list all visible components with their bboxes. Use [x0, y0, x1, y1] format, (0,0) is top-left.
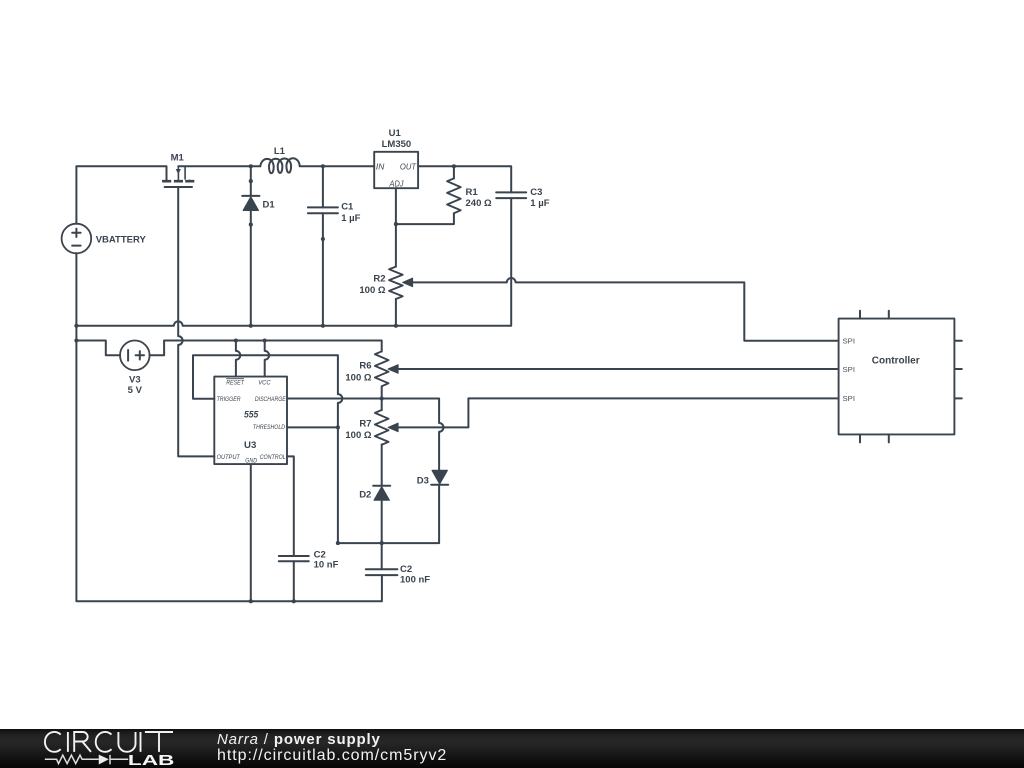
svg-text:D1: D1	[263, 200, 276, 211]
potentiometer R6	[375, 351, 398, 386]
wire battery bottom to rail1	[75, 253, 77, 325]
wire R1 top lead	[453, 166, 455, 178]
svg-text:C1: C1	[341, 201, 354, 212]
wire C2 10nF bottom to rail	[293, 561, 295, 601]
svg-text:OUT: OUT	[400, 162, 417, 172]
svg-text:SPI: SPI	[843, 365, 856, 374]
svg-text:Controller: Controller	[872, 355, 920, 366]
svg-text:SPI: SPI	[843, 394, 856, 403]
wire L1 to U1 IN	[300, 165, 375, 167]
svg-text:10 nF: 10 nF	[314, 560, 339, 571]
wire R6 bottom to R7 top	[381, 387, 383, 410]
inductor L1	[260, 158, 299, 173]
wire M1 gate down to 555 OUTPUT with hop over rail2	[178, 188, 214, 456]
svg-text:U3: U3	[244, 440, 256, 451]
svg-text:R2: R2	[373, 274, 385, 285]
svg-text:U1: U1	[389, 128, 402, 139]
svg-text:TRIGGER: TRIGGER	[217, 396, 241, 403]
regulator U1 box	[374, 152, 418, 188]
wire RESET drop with hop	[236, 341, 240, 377]
svg-text:100 Ω: 100 Ω	[359, 285, 385, 296]
svg-text:ADJ: ADJ	[389, 178, 405, 188]
capacitor C2 100nF	[366, 569, 398, 575]
wire left vertical to bottom rail to C2 100nF	[76, 326, 382, 602]
svg-text:555: 555	[244, 409, 259, 420]
svg-text:CONTROL: CONTROL	[260, 454, 286, 461]
pin labels 555	[217, 379, 286, 464]
resistor R1	[447, 178, 461, 213]
wire THRESHOLD pin	[287, 426, 338, 428]
svg-text:VCC: VCC	[258, 379, 270, 386]
capacitor C2 10nF	[279, 556, 309, 561]
wire U1 ADJ down to R2 top	[395, 188, 397, 266]
junction dots	[74, 164, 456, 603]
svg-text:THRESHOLD: THRESHOLD	[253, 424, 285, 431]
wire R6 wiper to controller SPI2	[397, 368, 839, 370]
svg-text:VBATTERY: VBATTERY	[96, 234, 147, 245]
wire D1 bottom to rail1	[250, 211, 252, 326]
logo diode triangle	[99, 755, 109, 765]
svg-text:M1: M1	[171, 153, 185, 164]
svg-text:R6: R6	[359, 361, 371, 372]
diode D2	[373, 486, 390, 500]
svg-text:DISCHARGE: DISCHARGE	[255, 396, 286, 403]
svg-text:D2: D2	[359, 490, 371, 501]
wire D2 bottom through node to C2 100nF top	[381, 500, 383, 569]
logo CIRCUIT lettering	[45, 732, 173, 752]
svg-text:C3: C3	[530, 187, 542, 198]
svg-text:R7: R7	[359, 418, 371, 429]
wire C3 bottom to rail1 with hop over gate line	[76, 198, 511, 326]
svg-text:5 V: 5 V	[128, 385, 143, 396]
potentiometer R7	[375, 410, 398, 445]
svg-text:L1: L1	[274, 146, 286, 157]
svg-text:1 µF: 1 µF	[530, 198, 549, 209]
svg-text:LM350: LM350	[382, 139, 412, 150]
svg-text:100 Ω: 100 Ω	[345, 372, 371, 383]
svg-text:D3: D3	[417, 475, 429, 486]
capacitor C1	[308, 207, 338, 213]
wire battery top to M1 drain	[76, 166, 166, 223]
diode D3	[431, 470, 448, 484]
svg-text:V3: V3	[129, 374, 141, 385]
wire VCC drop with hop	[265, 341, 269, 377]
wire R1 bottom to ADJ line	[396, 213, 454, 224]
svg-text:OUTPUT: OUTPUT	[217, 454, 241, 461]
wire C1 top lead	[322, 166, 324, 207]
555 timer U3 box	[214, 377, 287, 465]
wire C1 bottom to rail1	[322, 213, 324, 325]
diode D1	[242, 196, 259, 211]
wire 555 GND to bottom rail	[250, 464, 252, 601]
svg-text:GND: GND	[245, 458, 257, 464]
wire V3 right to rail2 to R6 top	[150, 341, 382, 356]
pin labels U1	[376, 162, 417, 189]
controller box	[839, 311, 962, 443]
svg-text:240 Ω: 240 Ω	[466, 198, 492, 209]
wire D3 bottom to C2 node	[338, 485, 439, 543]
potentiometer R2	[389, 267, 413, 299]
svg-text:SPI: SPI	[843, 337, 856, 346]
overline of RESET	[226, 378, 244, 380]
wire 555 CONTROL to C2 10nF	[287, 456, 294, 556]
wire R7 wiper to controller SPI3	[397, 398, 839, 427]
capacitor C3	[496, 192, 526, 198]
wire DISCHARGE to D3 top with hop over R7 wiper	[287, 399, 444, 472]
wire R2 bottom to rail1	[395, 299, 397, 326]
svg-text:LAB: LAB	[128, 752, 175, 768]
svg-text:1 µF: 1 µF	[341, 213, 360, 224]
wire M1 source to L1	[178, 165, 260, 167]
svg-text:R1: R1	[466, 187, 479, 198]
svg-text:RESET: RESET	[226, 379, 244, 386]
voltage source VBATTERY	[62, 224, 92, 254]
wire TRIGGER loop to THRESHOLD and down to C2 node	[193, 355, 342, 543]
wire rail2 to V3 left	[76, 341, 120, 356]
svg-text:100 Ω: 100 Ω	[345, 430, 371, 441]
voltage source V3	[120, 341, 150, 371]
transistor M1	[162, 166, 194, 188]
pin labels SPI	[843, 337, 856, 403]
svg-text:IN: IN	[376, 162, 384, 172]
wire U1 OUT to C3 top	[418, 166, 511, 192]
wire R7 bottom to D2 top	[381, 444, 383, 485]
svg-text:100 nF: 100 nF	[400, 574, 430, 585]
wire R2 wiper to controller SPI1 with hop over C3 line	[411, 278, 839, 341]
footer logo bar	[0, 729, 1024, 768]
wire D1 top lead	[250, 166, 252, 195]
logo resistor diode squiggle	[45, 755, 128, 764]
